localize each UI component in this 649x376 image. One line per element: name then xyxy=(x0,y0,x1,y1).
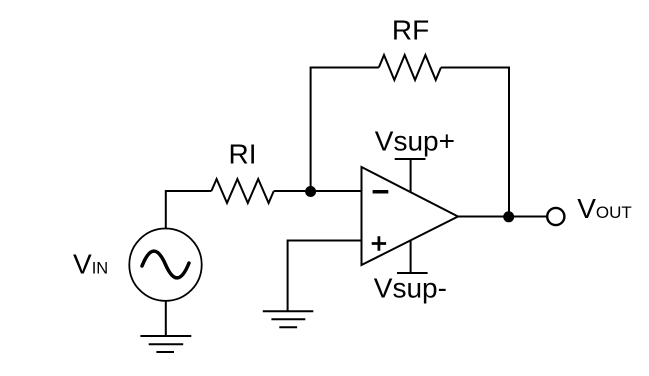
svg-text:Vsup+: Vsup+ xyxy=(375,126,455,157)
svg-text:RF: RF xyxy=(392,14,429,45)
svg-text:Vsup-: Vsup- xyxy=(374,273,447,304)
svg-text:RI: RI xyxy=(229,139,257,170)
